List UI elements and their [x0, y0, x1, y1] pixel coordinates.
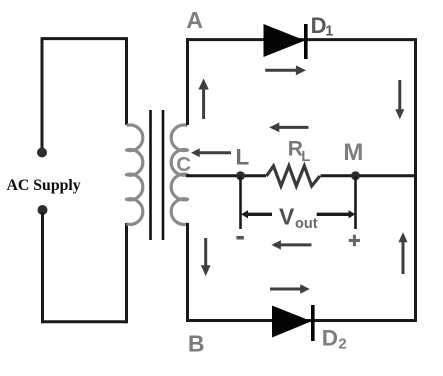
label Vout [279, 204, 318, 233]
transformer primary winding [127, 125, 143, 224]
svg-text:D: D [322, 326, 338, 351]
current arrow left (below Vout) [271, 240, 311, 249]
current arrow down (right branch top) [395, 80, 404, 119]
plus polarity mark [349, 235, 360, 247]
transformer core line 1 [149, 110, 152, 240]
current arrow right (above D2) [270, 284, 310, 293]
svg-text:1: 1 [325, 24, 333, 40]
label RL [288, 138, 311, 165]
node AC terminal lower [38, 205, 48, 215]
wire AC loop left upper [41, 37, 44, 150]
svg-text:L: L [301, 148, 310, 165]
svg-text:2: 2 [338, 336, 346, 353]
diode D1 [264, 24, 308, 59]
label D2 [322, 326, 347, 353]
wire center rail right (M to right wire) [321, 174, 418, 177]
wire center rail left (C to L) [186, 174, 266, 177]
transformer core line 2 [162, 110, 165, 240]
Vout dimension arrow left [241, 210, 272, 218]
svg-text:D: D [311, 13, 327, 38]
wire inner-left lower (B branch) [186, 223, 189, 322]
current arrow right (below D1) [265, 65, 306, 75]
svg-text:AC Supply: AC Supply [7, 177, 81, 194]
node L dot [236, 171, 245, 180]
wire Vout post left [239, 176, 242, 229]
current arrow down (B branch) [201, 238, 211, 276]
wire AC loop right lower (from primary bottom) [125, 223, 128, 323]
minus polarity mark [236, 236, 243, 240]
wire Vout post right [354, 176, 357, 229]
current arrow up (right branch bottom) [398, 232, 407, 274]
Vout dimension arrow right [317, 210, 356, 218]
svg-text:V: V [279, 204, 295, 230]
resistor RL [267, 166, 320, 186]
node M dot [351, 171, 360, 180]
diode D2 [272, 305, 315, 341]
wire AC loop right upper (to primary top) [125, 37, 128, 125]
svg-text:A: A [186, 7, 203, 33]
svg-text:M: M [343, 139, 363, 166]
svg-text:C: C [176, 153, 191, 176]
wire inner-left upper (A branch) [186, 38, 189, 125]
svg-text:L: L [236, 144, 250, 169]
wire AC loop left lower [41, 212, 44, 323]
current arrow left (above RL) [269, 123, 308, 133]
wire AC loop bottom bar [41, 320, 127, 323]
wire bottom rail [186, 319, 417, 322]
node AC terminal upper [37, 148, 47, 158]
transformer secondary winding [171, 125, 187, 224]
wire right vertical [414, 38, 417, 322]
current arrow up (A branch) [198, 79, 208, 120]
current arrow left (into node C) [191, 148, 231, 157]
svg-text:out: out [295, 216, 318, 232]
svg-text:B: B [188, 331, 205, 357]
label D1 [311, 13, 334, 39]
wire AC loop top bar [42, 37, 127, 40]
wire top rail [186, 38, 417, 41]
